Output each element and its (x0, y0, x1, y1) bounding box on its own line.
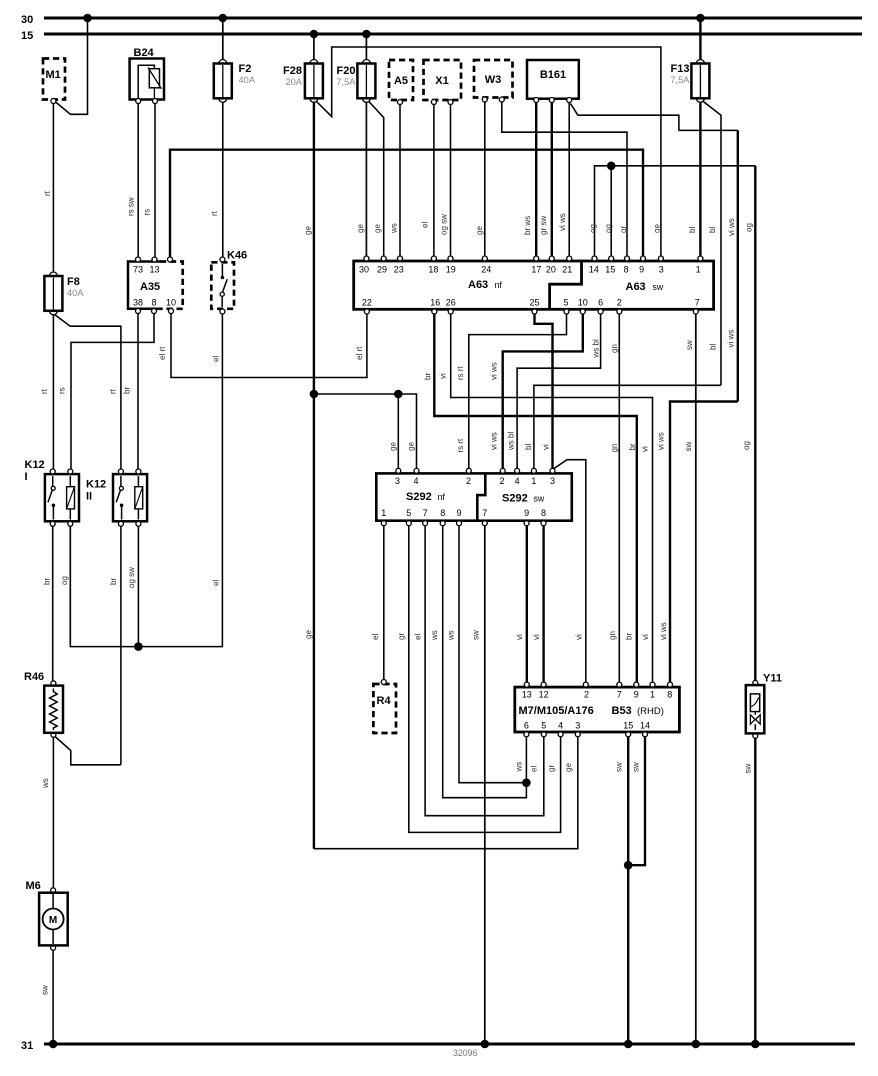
wire og pin 15 branch (610, 166, 612, 259)
svg-text:I: I (25, 471, 28, 483)
wire br: A63 pin16 to M7 pin9 (434, 314, 637, 685)
svg-text:A63: A63 (626, 281, 646, 293)
svg-text:F20: F20 (337, 65, 356, 77)
svg-text:1: 1 (650, 690, 655, 700)
junction ge branch (394, 390, 403, 399)
wire ge branch to S292 pins 3,4 (314, 394, 417, 468)
svg-text:ge: ge (304, 226, 313, 235)
wire el rt: A35 pin10 to A63 pin22 (171, 314, 367, 378)
wire K46 down, el (70, 314, 222, 647)
svg-text:el: el (414, 634, 423, 640)
wire rs rt: A63 pin5 to S292 pin2 (469, 314, 567, 468)
svg-text:br: br (109, 578, 118, 585)
svg-text:ge: ge (653, 224, 662, 233)
junction bus31 at Y11 (751, 1040, 760, 1049)
svg-text:1: 1 (531, 476, 536, 486)
wire B161 pin1 to pin 17, br ws (535, 102, 537, 259)
svg-text:7,5A: 7,5A (670, 75, 690, 85)
svg-text:og: og (742, 441, 751, 450)
junction bus31 at A63 pin7 (692, 1040, 701, 1049)
junction og net (607, 162, 616, 171)
wire ws: S292 pin8 to ws junction (443, 526, 527, 798)
svg-text:rs rt: rs rt (456, 365, 465, 380)
svg-text:M: M (49, 915, 57, 926)
svg-text:2: 2 (584, 690, 589, 700)
svg-text:vi: vi (641, 634, 650, 640)
svg-text:15: 15 (605, 265, 615, 275)
sensor B24 (130, 47, 164, 104)
fuse F20 7,5A (336, 60, 375, 103)
M7 bottom pins (524, 721, 650, 737)
svg-text:R4: R4 (377, 695, 392, 707)
svg-text:40A: 40A (239, 75, 256, 85)
wire X1 pin1 to pin 18, el (433, 105, 435, 259)
junction bus31 at S292 sw pin7 (481, 1040, 490, 1049)
wire F2 to K46, rt (222, 98, 224, 259)
svg-text:73: 73 (133, 265, 143, 275)
svg-text:vi: vi (515, 634, 524, 640)
switch K46 (211, 250, 247, 315)
wire A35 top pin to pin 9 (170, 150, 643, 260)
wire gn: A63 pin2 to M7 pin7 (618, 314, 620, 685)
junction on bus 15 at F28 (310, 30, 319, 39)
svg-text:15: 15 (21, 30, 33, 42)
fuse F8 40A (44, 272, 84, 315)
relay K12 II (86, 469, 147, 526)
svg-text:vi ws: vi ws (558, 213, 567, 231)
svg-text:(RHD): (RHD) (637, 706, 664, 717)
junction bus31 at M7 pin15 (624, 1040, 633, 1049)
svg-text:31: 31 (21, 1040, 33, 1052)
svg-text:8: 8 (541, 508, 546, 518)
svg-text:nf: nf (495, 280, 503, 290)
svg-text:K46: K46 (227, 250, 247, 262)
wire og sw: K12 II pin4 to junction (137, 526, 139, 646)
svg-text:sw: sw (684, 442, 693, 452)
svg-text:rt: rt (109, 388, 118, 394)
svg-text:bl: bl (708, 227, 717, 233)
svg-text:sw: sw (744, 764, 753, 774)
svg-text:II: II (86, 491, 92, 503)
svg-text:ws: ws (430, 630, 439, 641)
wire bus30 to F2 (222, 18, 224, 64)
svg-text:F13: F13 (671, 63, 690, 75)
fuse F2 40A (214, 60, 256, 103)
wire rt: F8 branch to K12 II pin1 (55, 315, 121, 469)
junction on bus 30 at M1 feed (83, 14, 92, 23)
svg-text:1: 1 (381, 508, 386, 518)
motor M6 (26, 880, 68, 950)
svg-text:Y11: Y11 (763, 673, 782, 685)
svg-text:og: og (604, 224, 613, 233)
svg-text:og: og (745, 223, 754, 232)
svg-text:ws: ws (390, 223, 399, 234)
svg-text:vi ws: vi ws (659, 622, 668, 640)
svg-text:S292: S292 (502, 493, 528, 505)
svg-text:20A: 20A (285, 77, 302, 87)
svg-text:sw: sw (615, 762, 624, 772)
wire el: S292 pin7 to M7 pin5 (425, 526, 544, 816)
svg-text:13: 13 (149, 265, 159, 275)
svg-text:nf: nf (438, 492, 446, 502)
svg-text:vi: vi (542, 444, 551, 450)
svg-text:vi: vi (439, 373, 448, 379)
resistor R46 (24, 671, 63, 737)
svg-text:38: 38 (133, 298, 143, 308)
svg-text:ge: ge (475, 226, 484, 235)
wire rt: F8 to K12 I pin1 (52, 314, 54, 469)
svg-text:B53: B53 (612, 705, 632, 717)
svg-text:3: 3 (659, 265, 664, 275)
svg-text:25: 25 (529, 298, 539, 308)
wire F28 branch diagonal up to ge line (316, 47, 661, 259)
svg-text:40A: 40A (67, 288, 84, 298)
svg-text:21: 21 (562, 265, 572, 275)
svg-text:29: 29 (377, 265, 387, 275)
svg-text:el: el (371, 634, 380, 640)
svg-text:ge: ge (304, 630, 313, 639)
svg-text:A63: A63 (468, 279, 488, 291)
junction bus31 at M6 (49, 1040, 58, 1049)
svg-text:gn: gn (608, 631, 617, 640)
svg-text:sw: sw (653, 282, 664, 292)
svg-text:W3: W3 (485, 74, 502, 86)
A63 bottom pins (362, 298, 700, 315)
svg-text:5: 5 (541, 721, 546, 731)
svg-text:5: 5 (563, 298, 568, 308)
resistor R4 (373, 680, 396, 734)
fuse F13 7,5A (670, 60, 709, 103)
svg-text:sw: sw (685, 340, 694, 350)
svg-text:24: 24 (481, 265, 491, 275)
wire og down to Y11 (754, 166, 756, 683)
junction on bus 15 at F20 (362, 30, 371, 39)
svg-text:26: 26 (446, 298, 456, 308)
wire F20 down to pin 30, ge (365, 98, 367, 258)
svg-text:10: 10 (166, 298, 176, 308)
wire B24 pin2 down, rs (154, 103, 156, 258)
wire vi: A63 pin26 to M7 pin1 (451, 314, 653, 685)
svg-text:R46: R46 (24, 671, 44, 683)
svg-text:br ws: br ws (523, 216, 532, 235)
svg-text:el: el (530, 766, 539, 772)
svg-text:23: 23 (394, 265, 404, 275)
svg-text:sw: sw (472, 630, 481, 640)
wire M1 down to F8, rt (52, 103, 54, 272)
wire sw: S292 sw pin7 to bus 31 (484, 526, 486, 1044)
svg-text:br: br (625, 633, 634, 640)
svg-text:br: br (123, 387, 132, 394)
svg-text:M7/M105/A176: M7/M105/A176 (519, 705, 594, 717)
wire F13 branch diagonal, bl thin (702, 101, 721, 386)
svg-text:sw: sw (534, 494, 545, 504)
bus 30 (44, 17, 862, 20)
wire rs: A35 pin8 to K12 I (71, 314, 154, 469)
S292 bottom pins (381, 508, 546, 526)
svg-text:9: 9 (639, 265, 644, 275)
junction on bus 30 at F2 (219, 14, 228, 23)
connector A5 (389, 60, 413, 105)
svg-text:vi ws: vi ws (727, 330, 736, 348)
svg-text:9: 9 (634, 690, 639, 700)
wire vi ws column down (737, 130, 739, 401)
svg-text:ws bl: ws bl (592, 339, 601, 358)
wire B161 pin3 branch to vi ws column (571, 104, 738, 131)
wire ge to S292 pin3 (397, 394, 399, 468)
svg-text:7: 7 (695, 298, 700, 308)
svg-text:20: 20 (546, 265, 556, 275)
wire br: A35 pin38 to K12 II (137, 314, 139, 469)
M7 top pins (522, 682, 673, 699)
junction sw net (624, 861, 633, 870)
wire B161 pin3 to pin 21, vi ws (568, 102, 570, 259)
svg-text:22: 22 (362, 298, 372, 308)
svg-text:M6: M6 (26, 880, 41, 892)
svg-text:rs sw: rs sw (127, 197, 136, 216)
svg-text:el: el (212, 580, 221, 586)
svg-text:br: br (43, 578, 52, 585)
svg-text:gr: gr (547, 765, 556, 772)
valve Y11 (746, 673, 782, 739)
svg-text:2: 2 (466, 476, 471, 486)
svg-text:8: 8 (151, 298, 156, 308)
wire sw: Y11 to bus 31 (754, 738, 756, 1044)
wire W3 pin1 to pin 24, ge (484, 102, 486, 259)
wire sw: A63 pin7 to bus 31 (695, 314, 697, 1044)
svg-text:rs: rs (143, 209, 152, 216)
svg-text:30: 30 (21, 14, 33, 26)
svg-text:9: 9 (524, 508, 529, 518)
svg-text:12: 12 (539, 690, 549, 700)
svg-text:vi: vi (575, 634, 584, 640)
wire bus15 to F20 (365, 34, 367, 64)
svg-text:el: el (212, 356, 221, 362)
connector block A63 nf / A63 sw (354, 261, 714, 309)
svg-text:B24: B24 (134, 47, 155, 59)
svg-text:32096: 32096 (453, 1048, 478, 1058)
wire bus15 to F28 (313, 34, 315, 64)
wire A5 to pin 23, ws (399, 105, 401, 259)
svg-text:3: 3 (575, 721, 580, 731)
wire br: K12 II pin3 down to R46 link (120, 526, 122, 765)
svg-text:ge: ge (373, 224, 382, 233)
wire vi: S292 sw pin9 to M7 pin13 (526, 526, 528, 685)
wire ws: S292 pin9 to ws junction (459, 526, 526, 783)
svg-text:ge: ge (356, 224, 365, 233)
svg-text:ws: ws (41, 778, 50, 789)
wire F20 branch diagonal to pin 29, ge (368, 101, 384, 259)
sensor B161 (527, 60, 579, 103)
svg-text:13: 13 (522, 690, 532, 700)
svg-text:br: br (628, 443, 637, 450)
wire br: K12 I pin3 to R46 (52, 526, 54, 681)
svg-text:ws: ws (447, 630, 456, 641)
svg-text:bl: bl (688, 227, 697, 233)
wire R46 branch to K12 II br (55, 737, 121, 765)
svg-text:gr sw: gr sw (539, 216, 548, 235)
svg-text:F2: F2 (239, 63, 252, 75)
svg-text:vi: vi (641, 446, 650, 452)
junction ge trunk (310, 390, 319, 399)
wire ws: R46 to M6 (52, 737, 54, 888)
svg-text:sw: sw (41, 985, 50, 995)
svg-text:10: 10 (578, 298, 588, 308)
svg-text:F8: F8 (67, 276, 80, 288)
wire bl: F13 branch to S292 sw pin1 (534, 385, 721, 468)
svg-text:el: el (421, 222, 430, 228)
svg-text:16: 16 (430, 298, 440, 308)
svg-text:K12: K12 (25, 459, 45, 471)
junction og sw / el (134, 642, 143, 651)
wire vi ws: column to M7 pin8 (670, 402, 738, 685)
svg-text:ws bl: ws bl (507, 432, 516, 451)
svg-text:bl: bl (709, 344, 718, 350)
S292 top pins (395, 468, 555, 486)
svg-text:vi ws: vi ws (490, 362, 499, 380)
svg-text:vi ws: vi ws (727, 218, 736, 236)
connector X1 (424, 60, 462, 105)
connector W3 (474, 60, 513, 102)
wire F28 trunk down (ge) with branch (313, 98, 315, 848)
wire sw: M7 pin14 joins pin15 wire (628, 737, 645, 865)
svg-text:vi: vi (532, 634, 541, 640)
svg-text:ge: ge (389, 442, 398, 451)
wire ws bl: A63 pin6 to S292 sw pin4 (517, 314, 601, 468)
wire og net: pin14 corner, dot to pin15, over to Y11 (595, 166, 756, 259)
svg-text:7: 7 (482, 508, 487, 518)
svg-text:vi ws: vi ws (657, 432, 666, 450)
svg-text:2: 2 (499, 476, 504, 486)
svg-text:M1: M1 (46, 69, 61, 81)
svg-text:3: 3 (395, 476, 400, 486)
relay K12 I (25, 459, 80, 526)
wire bus30 to M1 (corner) (55, 18, 88, 114)
svg-text:19: 19 (446, 265, 456, 275)
svg-text:7,5A: 7,5A (336, 77, 356, 87)
wire W3 pin2 to pin 8, gr (502, 102, 627, 259)
svg-text:4: 4 (413, 476, 418, 486)
wire gr: S292 pin5 to M7 pin4 (409, 526, 561, 833)
wire sw: M6 to bus 31 (52, 950, 54, 1044)
svg-text:8: 8 (667, 690, 672, 700)
control unit M7/M105/A176 B53 (RHD) (515, 687, 680, 732)
svg-text:S292: S292 (406, 491, 432, 503)
wire sw: M7 pin15 to bus 31 (627, 737, 629, 1044)
svg-text:og: og (60, 576, 69, 585)
bus 31 (44, 1043, 855, 1046)
svg-text:A5: A5 (394, 75, 408, 87)
svg-text:14: 14 (640, 721, 650, 731)
svg-text:4: 4 (515, 476, 520, 486)
wire vi: S292 sw pin8 to M7 pin12 (542, 526, 544, 685)
relay A35 (128, 257, 183, 314)
wire vi ws: A63 pin10 to S292 sw pin2 (503, 314, 583, 468)
svg-text:gr: gr (619, 226, 628, 233)
svg-text:gr: gr (397, 633, 406, 640)
svg-text:X1: X1 (435, 75, 448, 87)
svg-text:bl: bl (524, 444, 533, 450)
svg-text:ws: ws (515, 762, 524, 773)
svg-text:17: 17 (531, 265, 541, 275)
svg-text:6: 6 (524, 721, 529, 731)
svg-text:og sw: og sw (440, 214, 449, 235)
svg-text:9: 9 (456, 508, 461, 518)
connector block S292 nf / S292 sw (376, 473, 572, 520)
wire og: K12 I pin4 to el/ogsw junction (69, 526, 71, 646)
svg-text:rs: rs (58, 387, 67, 394)
svg-text:6: 6 (598, 298, 603, 308)
wire X1 pin2 to pin 19, og sw (450, 105, 452, 259)
svg-text:gn: gn (610, 444, 619, 453)
wire F13 to pin 1, bl (699, 98, 701, 258)
wire B24 pin1 down, rs sw (137, 103, 139, 258)
svg-text:ge: ge (407, 442, 416, 451)
fuse F28 20A (283, 60, 323, 103)
wire S292 sw pin3 branch to M7 pin2 (554, 460, 586, 685)
wire B161 pin2 to pin 20, gr sw (551, 102, 553, 259)
A63 top pins (359, 256, 703, 275)
svg-text:8: 8 (440, 508, 445, 518)
wire vi: A63 pin25 to S292 sw pin3 (535, 314, 553, 468)
svg-text:3: 3 (550, 476, 555, 486)
svg-text:F28: F28 (283, 65, 302, 77)
svg-text:br: br (424, 373, 433, 380)
svg-text:B161: B161 (540, 69, 566, 81)
svg-text:5: 5 (406, 508, 411, 518)
svg-text:ge: ge (564, 763, 573, 772)
svg-text:sw: sw (632, 762, 641, 772)
svg-text:2: 2 (617, 298, 622, 308)
svg-text:7: 7 (423, 508, 428, 518)
svg-text:el rt: el rt (355, 346, 364, 360)
svg-text:rt: rt (210, 210, 219, 216)
wire el: S292 pin1 to R4 (383, 526, 385, 681)
svg-text:og sw: og sw (127, 567, 136, 588)
svg-text:1: 1 (696, 265, 701, 275)
svg-text:14: 14 (589, 265, 599, 275)
svg-text:el rt: el rt (158, 346, 167, 360)
svg-text:rt: rt (40, 388, 49, 394)
motor M1 (43, 59, 65, 104)
wire bus30 to F13 (699, 18, 701, 64)
junction on bus 30 at F13 (696, 14, 705, 23)
junction ws net (522, 778, 531, 787)
svg-text:7: 7 (617, 690, 622, 700)
svg-text:18: 18 (428, 265, 438, 275)
svg-text:rt: rt (43, 190, 52, 196)
svg-text:30: 30 (359, 265, 369, 275)
svg-text:8: 8 (624, 265, 629, 275)
svg-text:gn: gn (610, 344, 619, 353)
svg-text:rs rt: rs rt (456, 438, 465, 453)
bus 15 (44, 33, 862, 36)
wire ge trunk bottom to M7 pin3 (314, 735, 578, 849)
svg-text:K12: K12 (86, 479, 106, 491)
svg-text:og: og (589, 224, 598, 233)
svg-text:vi ws: vi ws (490, 432, 499, 450)
svg-text:4: 4 (558, 721, 563, 731)
svg-text:15: 15 (623, 721, 633, 731)
svg-text:A35: A35 (140, 281, 160, 293)
